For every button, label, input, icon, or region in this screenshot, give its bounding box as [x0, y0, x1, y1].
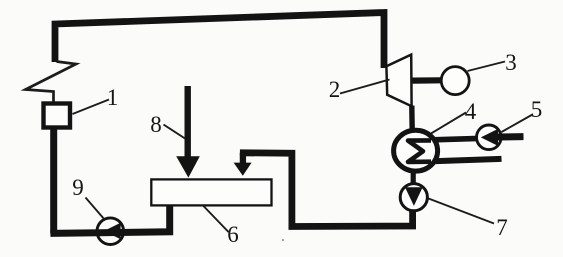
scan speckle	[282, 239, 284, 241]
arrow into heater (small)	[240, 153, 246, 164]
svg-text:4: 4	[465, 99, 477, 124]
wire: left break zigzag	[26, 62, 77, 103]
cooling water upper pipe	[429, 138, 479, 140]
condenser coil (sigma)	[408, 140, 431, 162]
shaft turbine-generator	[413, 77, 442, 83]
wire: bottom-left pipe through pump 9	[50, 204, 169, 233]
component box 1	[44, 104, 71, 128]
svg-text:8: 8	[150, 112, 162, 137]
svg-text:7: 7	[496, 215, 508, 240]
wire: left vertical below box 1	[50, 130, 57, 234]
wire: top steam pipe with left and right verticals	[55, 13, 384, 69]
heater rectangle 6	[151, 179, 271, 205]
arrow 8 (heat input)	[184, 86, 190, 158]
pump 9	[97, 218, 124, 245]
svg-text:3: 3	[505, 50, 517, 75]
label 6 pointer	[203, 206, 229, 233]
pump 7	[400, 184, 427, 211]
label 9 pointer	[86, 198, 105, 220]
pump 5	[477, 125, 502, 150]
turbine U2	[386, 55, 411, 107]
pump 5 inlet line	[497, 133, 524, 140]
generator 3	[441, 67, 469, 95]
wire: condensate return (right elbow down, bottom run, up to pump 7)	[240, 153, 413, 227]
label 1 pointer	[73, 100, 110, 115]
wire: turbine exhaust to condenser	[409, 106, 415, 132]
svg-text:5: 5	[531, 97, 543, 122]
condenser 4	[394, 130, 438, 171]
label 8 pointer	[164, 125, 186, 139]
label 2 pointer	[340, 80, 390, 94]
label 4 pointer	[431, 113, 466, 134]
label 7 pointer	[429, 199, 495, 224]
svg-text:1: 1	[107, 85, 119, 110]
svg-text:2: 2	[329, 77, 341, 102]
svg-text:6: 6	[227, 222, 239, 247]
cooling water lower pipe	[429, 159, 502, 162]
label 5 pointer	[502, 115, 533, 133]
wire: condenser to pump 7	[411, 170, 416, 185]
svg-text:9: 9	[72, 175, 84, 200]
label 3 pointer	[468, 62, 506, 72]
